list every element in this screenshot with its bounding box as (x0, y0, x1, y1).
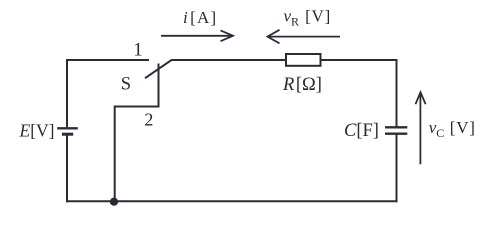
svg-text:C[F]: C[F] (344, 121, 379, 141)
svg-text:i[A]: i[A] (183, 8, 217, 27)
svg-text:vC[V]: vC[V] (429, 118, 476, 140)
svg-text:1: 1 (133, 39, 143, 60)
svg-text:R[Ω]: R[Ω] (282, 75, 322, 95)
svg-text:E[V]: E[V] (19, 121, 55, 141)
svg-text:2: 2 (144, 110, 153, 130)
svg-text:vR[V]: vR[V] (284, 7, 332, 29)
svg-text:S: S (121, 75, 131, 95)
